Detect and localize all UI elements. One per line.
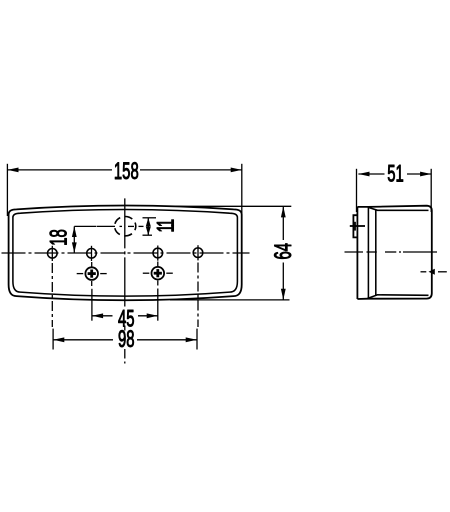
side view seam line 2 <box>375 210 377 295</box>
extension line below screw 1 <box>91 281 93 321</box>
extension line below screw 2 <box>157 281 159 321</box>
dimension 158 <box>7 164 241 216</box>
side view body outline <box>357 206 431 299</box>
dimension 11 arrow and ticks <box>143 218 157 235</box>
svg-text:64: 64 <box>271 243 297 260</box>
svg-text:18: 18 <box>46 229 72 246</box>
front view inner outline <box>13 210 238 297</box>
screw head circle 1 <box>77 267 107 280</box>
dimension 64 <box>170 206 291 300</box>
small mounting hole circle 4 <box>193 245 203 260</box>
extension line below hole 4 <box>197 263 198 350</box>
side view lens lip lines <box>367 207 428 298</box>
dimension 18 arrow and lines <box>74 226 96 253</box>
dimension 51 <box>357 169 432 212</box>
svg-text:11: 11 <box>153 219 179 233</box>
extension line above screw 2 <box>157 262 159 267</box>
screw head circle 2 <box>143 267 173 280</box>
side view horizontal centerline <box>345 251 438 253</box>
svg-text:98: 98 <box>118 327 135 353</box>
extension line below hole 1 <box>51 263 54 350</box>
vertical centerline of front view <box>124 198 126 363</box>
small mounting hole circle 3 <box>153 246 163 261</box>
dimension 45 <box>92 315 158 317</box>
side view mounting tab <box>353 215 357 237</box>
small mounting hole circle 1 <box>48 246 58 261</box>
svg-text:158: 158 <box>114 158 139 184</box>
side view seam line 1 <box>367 207 369 299</box>
mounting tab screw cross <box>350 222 365 231</box>
dimension 98 <box>53 339 197 341</box>
small mounting hole circle 2 <box>87 246 97 261</box>
optical axis arrow on lens <box>421 271 447 273</box>
svg-text:51: 51 <box>387 161 404 187</box>
horizontal centerline of front view <box>2 252 250 254</box>
front view outer outline <box>9 206 242 301</box>
horizontal centerline through hole <box>97 225 144 227</box>
extension line above screw 1 <box>91 262 93 267</box>
dashed circle hole diameter 11 <box>115 217 136 236</box>
